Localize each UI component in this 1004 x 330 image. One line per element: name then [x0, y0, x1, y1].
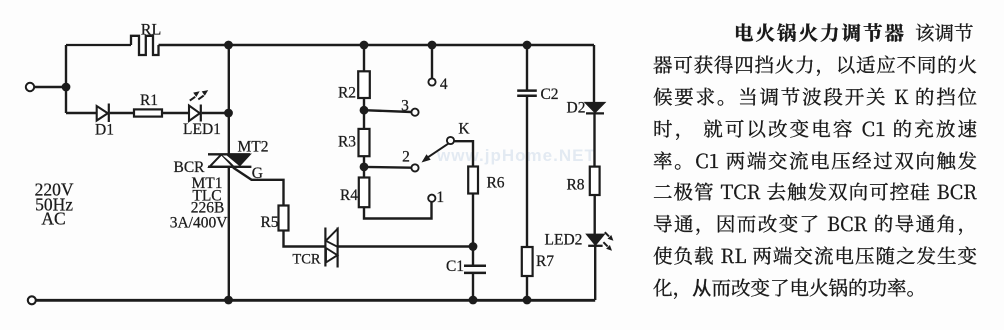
svg-text:R7: R7 — [536, 253, 554, 270]
wire — [594, 246, 596, 300]
resistor R5 — [279, 206, 289, 231]
wire — [34, 86, 62, 88]
wire top rail — [159, 44, 595, 47]
wire — [66, 112, 97, 114]
wire — [162, 112, 189, 114]
wire — [363, 45, 365, 71]
label 220V 50Hz AC — [35, 180, 74, 229]
watermark — [437, 146, 637, 166]
label 2 — [402, 149, 410, 166]
svg-text:R8: R8 — [566, 177, 584, 194]
node junction — [224, 296, 233, 305]
resistor R7 — [522, 247, 533, 276]
resistor R1 — [134, 109, 162, 116]
node junction — [523, 41, 532, 50]
label LED2 — [545, 232, 583, 249]
svg-text:2: 2 — [402, 149, 410, 166]
wire main vertical — [228, 45, 230, 154]
wire — [363, 156, 365, 177]
label G — [252, 165, 263, 182]
label R6 — [486, 175, 504, 192]
label 3A/400V — [170, 214, 229, 231]
label 226B — [191, 200, 225, 217]
label D1 — [95, 122, 114, 139]
capacitor C2 — [517, 91, 537, 96]
wire bottom rail — [36, 299, 595, 302]
triac BCR — [208, 150, 251, 173]
label MT2 — [238, 139, 269, 156]
svg-text:LED1: LED1 — [183, 121, 221, 138]
wire — [110, 112, 134, 114]
svg-text:K: K — [458, 121, 470, 138]
label K — [458, 121, 470, 138]
resistor R4 — [359, 178, 370, 208]
node junction on top rail — [224, 41, 233, 50]
label R8 — [566, 177, 584, 194]
label R7 — [536, 253, 554, 270]
contact 2 — [411, 164, 418, 171]
svg-text:3A/400V: 3A/400V — [170, 214, 229, 231]
label R3 — [338, 134, 356, 151]
svg-text:D2: D2 — [567, 100, 586, 117]
wire — [431, 45, 433, 78]
svg-text:RL: RL — [141, 22, 161, 39]
diode D2 — [586, 103, 605, 114]
resistor R6 — [468, 167, 478, 194]
wire — [364, 110, 411, 112]
wire — [526, 276, 528, 300]
LED LED2 — [587, 232, 614, 251]
svg-text:1: 1 — [436, 189, 444, 206]
wire — [364, 202, 432, 219]
label C2 — [540, 86, 558, 103]
label R2 — [338, 85, 356, 102]
wire — [284, 231, 326, 247]
label RL — [141, 22, 161, 39]
label R4 — [340, 187, 358, 204]
wire — [228, 167, 230, 300]
contact 1 — [428, 195, 435, 202]
svg-text:R4: R4 — [340, 187, 358, 204]
svg-text:MT2: MT2 — [238, 139, 269, 156]
label 4 — [440, 76, 448, 93]
node junction — [224, 109, 233, 118]
wire — [593, 113, 595, 166]
label C1 — [446, 258, 464, 275]
label R1 — [140, 92, 158, 109]
wire — [65, 87, 67, 113]
svg-text:R3: R3 — [338, 134, 356, 151]
svg-text:3: 3 — [401, 98, 409, 115]
wire — [454, 141, 473, 166]
contact 3 — [411, 109, 418, 116]
wire — [338, 245, 473, 247]
svg-text:G: G — [252, 165, 263, 182]
diode D1 — [97, 104, 109, 123]
node A junction — [62, 83, 71, 92]
wire — [593, 45, 595, 103]
wire — [594, 195, 596, 234]
wire — [363, 98, 365, 129]
diac TCR — [325, 228, 337, 268]
label BCR — [173, 159, 205, 176]
switch K arm — [422, 144, 449, 163]
wire — [65, 45, 67, 89]
node junction — [523, 296, 532, 305]
wire — [364, 166, 411, 169]
svg-text:R6: R6 — [486, 175, 504, 192]
label D2 — [567, 100, 586, 117]
switch K pivot — [447, 137, 454, 144]
label R5 — [260, 214, 278, 231]
label 1 — [436, 189, 444, 206]
wire — [472, 247, 474, 266]
label 3 — [401, 98, 409, 115]
svg-text:R1: R1 — [140, 92, 158, 109]
node junction — [428, 41, 437, 50]
svg-text:TCR: TCR — [292, 252, 321, 268]
wire — [202, 112, 229, 114]
svg-text:BCR: BCR — [173, 159, 205, 176]
node junction — [360, 106, 369, 115]
wire gate G — [233, 168, 284, 206]
wire — [66, 44, 131, 46]
resistor R8 — [590, 167, 600, 195]
wire — [472, 194, 474, 247]
svg-text:C2: C2 — [540, 86, 558, 103]
label TLC — [192, 188, 221, 205]
capacitor C1 — [464, 266, 486, 273]
node junction — [360, 163, 369, 172]
label LED1 — [183, 121, 221, 138]
description text — [653, 17, 977, 304]
node junction — [469, 296, 478, 305]
svg-text:4: 4 — [440, 76, 448, 93]
svg-text:LED2: LED2 — [545, 232, 583, 249]
wire — [526, 45, 528, 90]
node junction — [360, 41, 369, 50]
svg-text:R5: R5 — [260, 214, 278, 231]
terminal T2 (AC input bottom) — [28, 296, 36, 304]
svg-text:R2: R2 — [338, 85, 356, 102]
load RL (heater element) — [131, 36, 159, 55]
wire — [526, 96, 528, 247]
svg-text:D1: D1 — [95, 122, 114, 139]
LED LED1 — [189, 90, 208, 121]
svg-text:AC: AC — [41, 209, 65, 229]
resistor R2 — [358, 71, 370, 98]
wire — [472, 273, 474, 300]
terminal T1 (AC input top) — [26, 83, 34, 91]
resistor R3 — [359, 129, 370, 156]
contact 4 — [428, 78, 435, 85]
label TCR — [292, 252, 321, 268]
svg-text:C1: C1 — [446, 258, 464, 275]
label MT1 — [192, 175, 223, 192]
node junction — [469, 242, 478, 251]
